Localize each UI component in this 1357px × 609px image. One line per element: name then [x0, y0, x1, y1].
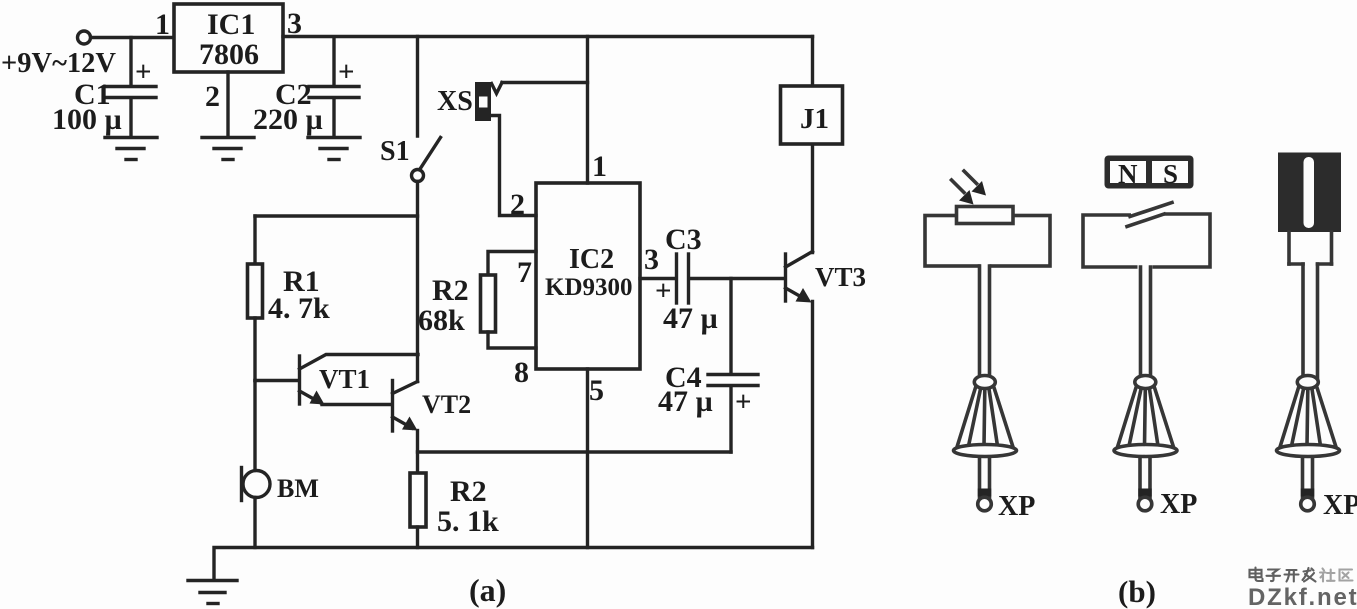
wire VT1 emitter to VT2 base	[322, 403, 392, 406]
svg-text:(b): (b)	[1118, 574, 1156, 609]
svg-text:DZkf.net: DZkf.net	[1248, 584, 1357, 609]
stem gap of probe XP1	[981, 260, 990, 272]
input terminal circle	[78, 31, 91, 44]
svg-text:7806: 7806	[199, 38, 259, 71]
light arrow 1 of probe XP1	[964, 171, 986, 196]
plug cone of probe XP2	[1114, 376, 1177, 457]
stem of probe XP3	[1303, 264, 1318, 378]
plug shaft of probe XP3	[1301, 458, 1315, 511]
photoresistor on probe XP1	[957, 207, 1014, 224]
transistor VT3	[786, 252, 813, 303]
svg-text:S: S	[1163, 159, 1178, 189]
wire VT1 base	[255, 379, 299, 382]
svg-text:VT3: VT3	[815, 262, 866, 292]
transistor VT1	[300, 355, 419, 405]
svg-text:220 µ: 220 µ	[253, 103, 323, 136]
svg-text:N: N	[1118, 159, 1138, 189]
plug shaft of probe XP1	[978, 458, 992, 511]
svg-text:+: +	[338, 56, 355, 88]
svg-text:100 µ: 100 µ	[52, 103, 122, 136]
switch S1	[412, 37, 441, 182]
IC2 KD9300	[536, 183, 640, 369]
microphone BM	[242, 468, 271, 548]
svg-text:1: 1	[155, 8, 170, 41]
svg-text:68k: 68k	[418, 304, 465, 337]
relay J1	[781, 37, 843, 145]
wire VT3 emitter to rail	[811, 302, 814, 548]
svg-text:5. 1k: 5. 1k	[437, 505, 499, 538]
svg-text:BM: BM	[277, 474, 319, 503]
svg-text:IC2: IC2	[569, 244, 614, 275]
wire node R1 top to S1 branch	[255, 214, 418, 217]
svg-text:8: 8	[514, 356, 529, 389]
wire S1 to VT2 collector	[416, 182, 419, 382]
ground under C1	[105, 138, 157, 160]
svg-text:IC1: IC1	[207, 8, 255, 41]
stem of probe XP1	[980, 266, 990, 378]
svg-text:R2: R2	[450, 475, 487, 508]
svg-text:(a): (a)	[469, 572, 506, 608]
wire IC2 pin 3	[640, 277, 675, 280]
svg-text:XP: XP	[1160, 489, 1197, 520]
resistor R1 4.7k	[248, 216, 263, 381]
wire IC2 pin 5 to ground rail	[586, 369, 589, 548]
svg-text:4. 7k: 4. 7k	[268, 292, 330, 325]
capacitor C4 47u	[708, 375, 758, 453]
svg-text:J1: J1	[800, 103, 829, 135]
wire IC2 pin 1	[586, 37, 589, 184]
ground under C2	[308, 138, 360, 160]
socket XS	[475, 82, 588, 216]
ground under IC1 pin 2	[202, 138, 254, 160]
plug cone of probe XP1	[954, 376, 1017, 457]
svg-text:R2: R2	[432, 274, 469, 307]
watermark line 1 (vector CJK glyphs)	[1250, 568, 1316, 582]
black sensor head of probe XP3	[1278, 153, 1341, 233]
stem of probe XP2	[1141, 267, 1151, 378]
svg-text:XP: XP	[1323, 490, 1357, 521]
resistor R2 68k feedback loop	[481, 252, 537, 349]
svg-text:C3: C3	[665, 223, 702, 256]
svg-text:+9V~12V: +9V~12V	[1, 48, 116, 79]
capacitor C3 47u	[677, 254, 786, 303]
wire R1 bottom to BM	[253, 381, 256, 471]
ground bottom left	[188, 581, 237, 604]
svg-text:47 µ: 47 µ	[663, 302, 718, 335]
wire input terminal to IC1 pin 1	[91, 36, 174, 39]
transistor VT2	[393, 381, 418, 432]
magnet N S	[1105, 156, 1194, 190]
wire VT2 emitter down	[416, 431, 419, 474]
capacitor C2 220u	[309, 38, 359, 137]
svg-text:2: 2	[510, 188, 525, 221]
plug cone of probe XP3	[1277, 376, 1340, 457]
svg-text:+: +	[135, 56, 152, 88]
IC1 7806 regulator	[174, 4, 283, 72]
svg-text:XS: XS	[437, 86, 473, 117]
svg-text:VT1: VT1	[319, 364, 370, 394]
svg-text:KD9300: KD9300	[545, 274, 633, 301]
probe box XP2 with reed switch	[1083, 203, 1210, 268]
svg-text:1: 1	[592, 150, 607, 183]
svg-text:XP: XP	[998, 491, 1035, 522]
top power rail wire	[283, 35, 813, 38]
resistor R2 5.1k	[410, 473, 426, 548]
svg-text:VT2: VT2	[422, 390, 471, 419]
bottom ground rail wire	[214, 548, 813, 581]
wire VT3 collector to J1	[811, 144, 814, 253]
plug shaft of probe XP2	[1138, 458, 1152, 511]
svg-text:7: 7	[517, 256, 532, 289]
svg-text:47 µ: 47 µ	[658, 385, 713, 418]
capacitor C1 100u	[106, 38, 156, 137]
svg-text:S1: S1	[380, 136, 410, 167]
svg-text:5: 5	[589, 374, 604, 407]
svg-text:2: 2	[205, 80, 220, 113]
svg-text:3: 3	[644, 243, 659, 276]
wire C3 node down to C4	[729, 279, 732, 374]
light arrow 2 of probe XP1	[952, 180, 974, 205]
wire VT2 emitter to C4 bottom	[418, 450, 732, 453]
wire IC1 pin 2 to ground	[226, 72, 229, 136]
probe box XP1	[925, 216, 1050, 267]
collar of probe XP3	[1289, 232, 1332, 264]
svg-text:+: +	[735, 386, 752, 418]
